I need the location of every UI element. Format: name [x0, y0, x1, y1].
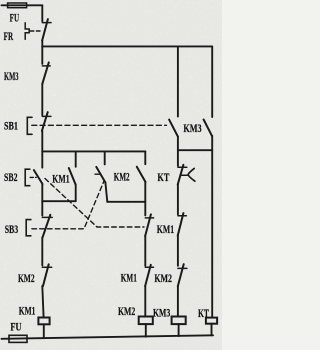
wire: KT coil to bottom rail: [211, 324, 213, 336]
wire: node N3 horizontal: [178, 149, 212, 151]
contactor NC contact KM3 (col A interlock): [42, 46, 50, 84]
thermal relay contact FR (NC): [25, 19, 51, 40]
svg-text:KM2: KM2: [18, 271, 35, 285]
button contact SB3 (NC, col A): [26, 201, 52, 237]
contactor NO contact KM3 (col E): [204, 46, 213, 317]
svg-text:KM1: KM1: [19, 303, 36, 317]
coil KT: [206, 318, 217, 324]
wire: linkage SB2 to its NC contact (dashed): [45, 179, 144, 228]
button NC contact SB2' (col C, row 215): [145, 214, 154, 265]
start button SB2 (NO, col A): [25, 151, 42, 185]
wire: SB2 branch to node N2a: [41, 184, 43, 201]
paper background: [0, 0, 222, 350]
wire: KM3 coil to bottom rail: [178, 324, 180, 336]
wire: KM1 coil to bottom rail: [43, 324, 45, 338]
button NO contact SB1' (col D top): [169, 46, 178, 150]
coil KM2: [139, 317, 153, 325]
svg-text:KM2: KM2: [154, 271, 172, 285]
wire: SB1 to node N1: [41, 131, 43, 152]
wire: KM2 coil to bottom rail: [145, 324, 147, 337]
svg-text:KM3: KM3: [153, 306, 170, 320]
button NO contact SB3' (col C top): [137, 151, 146, 215]
contactor NO contact KM2 (latch, col B2): [96, 151, 145, 201]
svg-text:KM3: KM3: [183, 121, 201, 135]
wire: node N2a horizontal: [42, 200, 75, 202]
svg-text:SB3: SB3: [5, 222, 19, 236]
wire: bottom rail: [2, 335, 214, 339]
contactor NC contact KM2 (col A interlock): [42, 238, 51, 318]
wire: linkage SB3 to its NO contact (dashed): [32, 174, 104, 229]
fuse FU (bottom): [9, 335, 27, 342]
svg-text:FR: FR: [4, 29, 14, 43]
coil KM3: [172, 317, 186, 325]
coil KM1: [38, 318, 49, 325]
svg-text:KT: KT: [198, 306, 209, 320]
contactor NC contact KM2 (col D): [178, 236, 187, 317]
svg-text:SB1: SB1: [4, 119, 18, 133]
svg-text:KM1: KM1: [52, 172, 69, 186]
svg-text:KM3: KM3: [4, 69, 19, 83]
svg-text:KM1: KM1: [157, 222, 174, 236]
svg-text:FU: FU: [10, 11, 20, 25]
fuse FU (top): [8, 3, 27, 8]
wire: top bus to right branch: [42, 45, 212, 47]
wire: KM3 to SB1: [41, 84, 43, 115]
timer delayed NC contact KT: [178, 150, 195, 184]
svg-text:KM2: KM2: [118, 304, 135, 318]
wire: top feed into fuse FU: [2, 4, 43, 6]
svg-text:FU: FU: [10, 320, 21, 334]
contactor NC contact KM1 (interlock, col C): [145, 265, 153, 317]
svg-text:KM2: KM2: [114, 170, 130, 184]
svg-text:KT: KT: [157, 170, 169, 184]
wire: node N1 horizontal bus: [42, 150, 145, 152]
stop button SB1 (NC): [27, 112, 166, 134]
svg-text:KM1: KM1: [121, 271, 137, 285]
contactor NC contact KM1 (col D): [178, 185, 187, 236]
wire: FR to bus node: [41, 41, 43, 47]
wire: fuse to corner, down col A: [41, 5, 43, 21]
contactor NO contact KM1 (self-latch, col B): [69, 151, 76, 201]
svg-text:SB2: SB2: [4, 170, 18, 184]
